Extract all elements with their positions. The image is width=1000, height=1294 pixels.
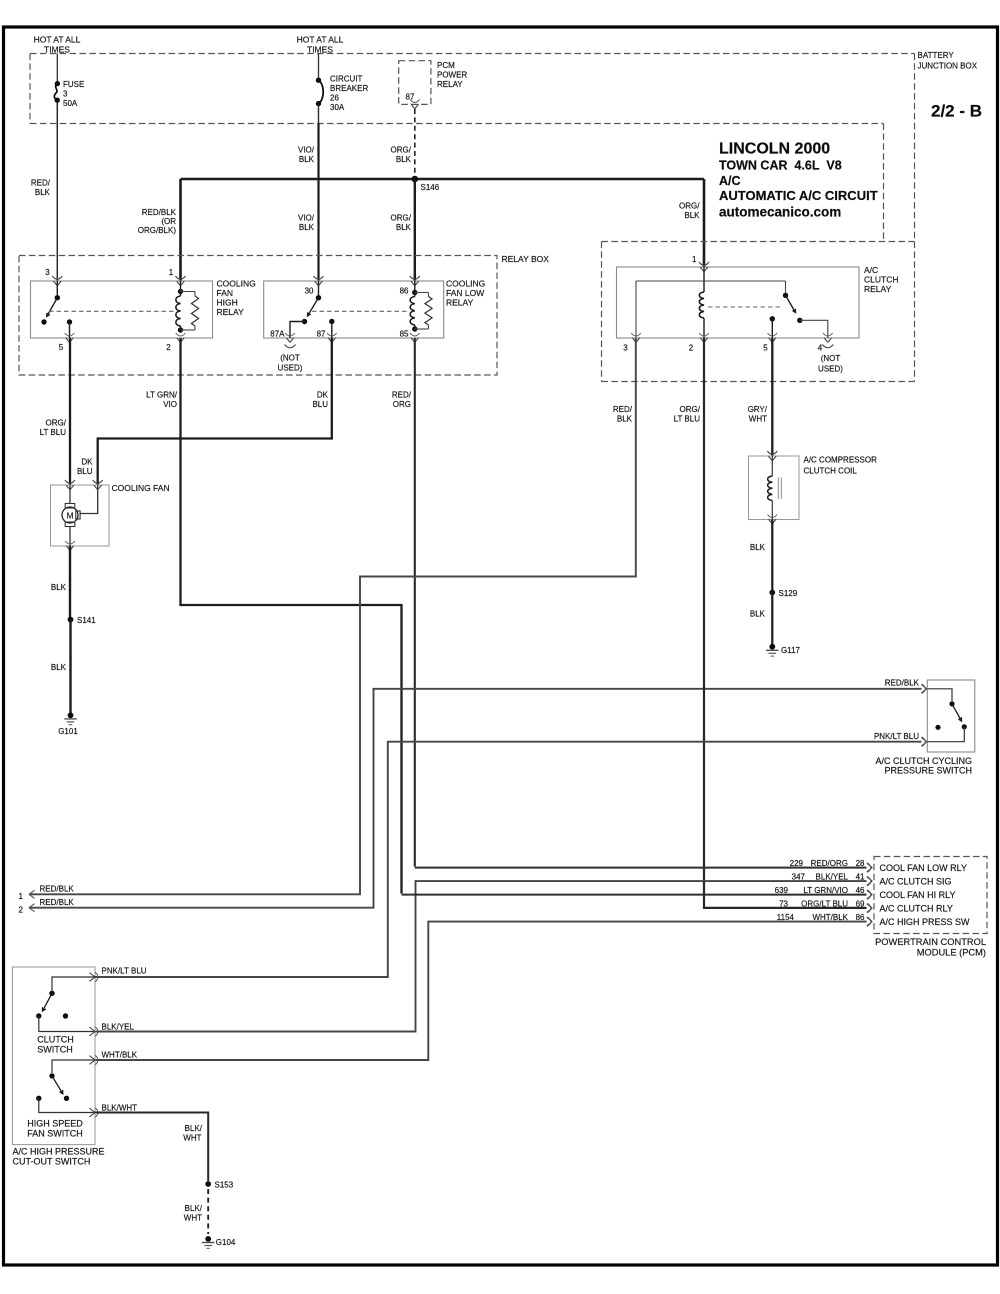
A/C relay coil bbox=[699, 281, 704, 338]
wire ORG/LT BLU high relay pin 5 to fan bbox=[69, 338, 71, 485]
svg-text:41: 41 bbox=[856, 872, 865, 881]
svg-text:BLK/YEL: BLK/YEL bbox=[816, 872, 849, 881]
label RED/BLK (fuse wire) bbox=[31, 179, 51, 198]
svg-text:WHT: WHT bbox=[184, 1214, 202, 1223]
cut-out switch label bbox=[13, 1147, 105, 1167]
label BLK/WHT (vertical lower) bbox=[184, 1204, 203, 1223]
label DK BLU (fan) bbox=[77, 458, 93, 477]
high relay switch bbox=[41, 281, 60, 325]
label RED/BLK (pressure switch) bbox=[885, 679, 920, 688]
pin 85 connector bbox=[410, 333, 420, 342]
svg-text:BLK: BLK bbox=[51, 663, 67, 672]
wire ORG/LT BLU A/C relay pin 2 to PCM bbox=[704, 338, 867, 908]
svg-text:229: 229 bbox=[790, 859, 804, 868]
PCM pin rows (labels and connectors) bbox=[775, 859, 970, 927]
svg-text:1: 1 bbox=[169, 268, 174, 277]
svg-text:DK: DK bbox=[81, 458, 93, 467]
A/C relay internal bus bbox=[636, 267, 786, 338]
svg-text:automecanico.com: automecanico.com bbox=[719, 205, 841, 220]
high relay linkage (dashed) bbox=[49, 310, 174, 312]
svg-text:BLK: BLK bbox=[750, 543, 766, 552]
svg-text:26: 26 bbox=[330, 94, 339, 103]
svg-text:2: 2 bbox=[166, 343, 171, 352]
PCM label bbox=[875, 937, 986, 958]
svg-text:COOL FAN LOW RLY: COOL FAN LOW RLY bbox=[880, 863, 968, 873]
svg-text:RED/ORG: RED/ORG bbox=[811, 859, 848, 868]
svg-text:30A: 30A bbox=[330, 103, 345, 112]
svg-text:86: 86 bbox=[856, 913, 865, 922]
svg-text:HIGH: HIGH bbox=[217, 298, 238, 308]
svg-text:ORG/: ORG/ bbox=[391, 214, 412, 223]
circuit breaker 26 30A bbox=[316, 78, 323, 107]
cooling fan ground connector bbox=[65, 541, 75, 550]
svg-text:G101: G101 bbox=[58, 727, 78, 736]
cooling fan low relay label bbox=[446, 279, 485, 308]
clutch switch bbox=[36, 977, 95, 1032]
A/C relay pin 4 label bbox=[818, 344, 823, 353]
connector 2 (left edge) bbox=[19, 904, 35, 915]
pin 87A not used label bbox=[278, 354, 303, 373]
pin 3 label bbox=[45, 268, 50, 277]
relay box label bbox=[502, 254, 550, 264]
svg-text:RELAY: RELAY bbox=[217, 307, 245, 317]
svg-text:RELAY: RELAY bbox=[446, 298, 474, 308]
A/C relay pin 2 label bbox=[689, 344, 694, 353]
label ORG/LT BLU (fan feed) bbox=[40, 419, 67, 438]
wire RED/ORG low relay pin 85 down bbox=[414, 338, 416, 867]
pin 2 label bbox=[166, 343, 171, 352]
svg-text:A/C CLUTCH SIG: A/C CLUTCH SIG bbox=[880, 876, 952, 886]
label LT GRN/VIO bbox=[146, 391, 178, 410]
label PNK/LT BLU (pressure switch) bbox=[874, 732, 919, 741]
svg-text:50A: 50A bbox=[63, 99, 78, 108]
ground G101 bbox=[58, 712, 78, 736]
svg-text:ORG/: ORG/ bbox=[46, 419, 67, 428]
svg-text:PRESSURE SWITCH: PRESSURE SWITCH bbox=[884, 766, 972, 776]
svg-text:BATTERY: BATTERY bbox=[918, 51, 955, 60]
pin 30 connector bbox=[314, 276, 324, 286]
A/C relay contact to pin 5 bbox=[770, 316, 775, 338]
A/C relay linkage (dashed) bbox=[708, 306, 781, 308]
svg-text:CLUTCH: CLUTCH bbox=[864, 275, 898, 285]
wire RED/BLK circuit 2 (to pressure switch) bbox=[29, 689, 922, 908]
compressor ground connector bbox=[768, 515, 778, 524]
pressure switch label bbox=[875, 756, 972, 776]
title block dashed edge bbox=[883, 124, 885, 242]
wire RED/BLK fuse to relay pin 3 bbox=[56, 103, 58, 282]
svg-text:COOLING: COOLING bbox=[446, 279, 485, 289]
label ORG/BLK (upper) bbox=[391, 146, 412, 165]
svg-text:(OR: (OR bbox=[161, 217, 176, 226]
svg-text:RED/: RED/ bbox=[613, 405, 633, 414]
svg-text:ORG/: ORG/ bbox=[680, 405, 701, 414]
svg-text:JUNCTION BOX: JUNCTION BOX bbox=[918, 62, 978, 71]
svg-text:HIGH SPEED: HIGH SPEED bbox=[27, 1119, 83, 1129]
svg-text:WHT: WHT bbox=[183, 1134, 201, 1143]
title text block bbox=[719, 141, 878, 220]
wire VIO/BLK to relay pin 30 bbox=[317, 124, 319, 282]
svg-text:A/C CLUTCH CYCLING: A/C CLUTCH CYCLING bbox=[875, 756, 972, 766]
svg-text:BLK: BLK bbox=[35, 188, 51, 197]
svg-text:FAN: FAN bbox=[217, 288, 234, 298]
label BLK/YEL (clutch switch) bbox=[102, 1023, 135, 1032]
svg-text:2: 2 bbox=[19, 906, 24, 915]
svg-text:A/C HIGH PRESSURE: A/C HIGH PRESSURE bbox=[13, 1147, 105, 1157]
cooling fan box bbox=[51, 485, 110, 546]
A/C compressor clutch coil box bbox=[749, 456, 800, 520]
label RED/BLK (A/C pin 3) bbox=[613, 405, 633, 424]
svg-text:S146: S146 bbox=[421, 183, 440, 192]
svg-text:347: 347 bbox=[792, 872, 806, 881]
hot at all times label (right feed) bbox=[297, 35, 344, 55]
wire ORG/BLK S146 to low relay pin 86 bbox=[414, 179, 416, 281]
label RED/BLK (circuit 2) bbox=[40, 898, 75, 907]
svg-text:CIRCUIT: CIRCUIT bbox=[330, 75, 363, 84]
wire PNK/LT BLU clutch switch to pressure switch bbox=[95, 742, 922, 977]
pin 1 label bbox=[169, 268, 174, 277]
A/C high pressure cut-out switch box bbox=[12, 967, 95, 1145]
A/C clutch relay dashed box bbox=[602, 242, 915, 382]
svg-text:639: 639 bbox=[775, 886, 789, 895]
label VIO/BLK (upper) bbox=[298, 146, 315, 165]
svg-text:1154: 1154 bbox=[777, 913, 795, 922]
svg-text:BLK: BLK bbox=[617, 415, 633, 424]
label BLK (compressor upper) bbox=[750, 543, 766, 552]
svg-text:1: 1 bbox=[692, 255, 697, 264]
clutch switch BLK/YEL connector bbox=[90, 1027, 98, 1037]
label WHT/BLK (fan switch) bbox=[102, 1051, 138, 1060]
pressure switch internals bbox=[927, 689, 967, 742]
pin 2 connector bbox=[176, 333, 186, 342]
svg-text:FUSE: FUSE bbox=[63, 80, 84, 89]
label RED/BLK (circuit 1) bbox=[40, 885, 75, 894]
svg-text:BLK/: BLK/ bbox=[185, 1204, 203, 1213]
pin 86 label bbox=[400, 287, 409, 296]
cooling fan label bbox=[112, 483, 170, 493]
wire BLK S129 to G117 bbox=[771, 593, 773, 647]
pin 87A connector (not used) bbox=[285, 333, 296, 348]
svg-text:CLUTCH COIL: CLUTCH COIL bbox=[804, 467, 858, 476]
svg-text:A/C: A/C bbox=[719, 174, 741, 188]
wire BLK/WHT fan switch to S153 bbox=[95, 1113, 208, 1182]
fuse label bbox=[63, 80, 84, 108]
svg-text:PNK/LT BLU: PNK/LT BLU bbox=[102, 967, 147, 976]
pin 86 connector bbox=[410, 276, 420, 286]
svg-text:LT GRN/VIO: LT GRN/VIO bbox=[803, 886, 848, 895]
svg-text:87: 87 bbox=[317, 330, 326, 339]
label VIO/BLK (lower) bbox=[298, 214, 315, 233]
svg-text:MODULE (PCM): MODULE (PCM) bbox=[917, 947, 986, 957]
compressor coil winding bbox=[768, 456, 782, 520]
svg-text:USED): USED) bbox=[818, 365, 843, 374]
wire LT GRN/VIO high relay pin 2 to PCM jog bbox=[181, 338, 402, 894]
cooling fan high relay label bbox=[217, 279, 256, 318]
svg-text:HOT AT ALL: HOT AT ALL bbox=[34, 35, 81, 45]
svg-text:VIO: VIO bbox=[163, 400, 177, 409]
low relay contact to pin 87 bbox=[329, 319, 334, 338]
compressor feed connector bbox=[767, 451, 777, 461]
relay box (dashed) bbox=[19, 256, 497, 376]
svg-text:S153: S153 bbox=[215, 1181, 234, 1190]
svg-text:BLK: BLK bbox=[684, 211, 700, 220]
svg-text:TIMES: TIMES bbox=[44, 45, 70, 55]
svg-text:HOT AT ALL: HOT AT ALL bbox=[297, 35, 344, 45]
label GRY/WHT (A/C pin 5) bbox=[748, 405, 768, 424]
svg-text:POWER: POWER bbox=[437, 71, 467, 80]
wire GRY/WHT A/C relay pin 5 to compressor bbox=[771, 338, 773, 456]
svg-text:WHT/BLK: WHT/BLK bbox=[102, 1051, 138, 1060]
svg-text:BLK: BLK bbox=[396, 223, 412, 232]
PCM wire row 1 RED/ORG bbox=[415, 867, 867, 869]
svg-text:VIO/: VIO/ bbox=[298, 214, 315, 223]
wire BLK compressor to S129 bbox=[771, 520, 773, 592]
A/C clutch cycling pressure switch box bbox=[927, 680, 975, 752]
PCM wire row 3 LT GRN/VIO bbox=[402, 894, 867, 896]
svg-text:69: 69 bbox=[856, 899, 865, 908]
svg-text:1: 1 bbox=[19, 892, 24, 901]
high relay coil shunt resistor bbox=[181, 292, 199, 331]
pin 87 connector bbox=[327, 333, 337, 342]
circuit breaker label bbox=[330, 75, 368, 113]
pressure switch PNK/LT BLU connector bbox=[921, 737, 927, 747]
svg-text:3: 3 bbox=[623, 344, 628, 353]
label BLK (fan upper) bbox=[51, 583, 67, 592]
hot at all times label (left feed) bbox=[34, 35, 81, 55]
label ORG/BLK (lower) bbox=[391, 214, 412, 233]
svg-text:ORG/BLK): ORG/BLK) bbox=[138, 226, 177, 235]
high relay contact to pin 5 bbox=[67, 319, 72, 338]
PCM power relay (dashed box) bbox=[399, 61, 431, 105]
node S141 bbox=[68, 616, 97, 625]
A/C clutch relay label bbox=[864, 265, 898, 294]
pin 85 label bbox=[400, 330, 409, 339]
wire DK BLU low relay pin 87 to cooling fan bbox=[98, 338, 332, 485]
ground G104 bbox=[202, 1236, 236, 1248]
pin 30 label bbox=[305, 287, 314, 296]
svg-text:85: 85 bbox=[400, 330, 409, 339]
wire RED/BLK (OR ORG/BLK) to high relay pin 1 bbox=[179, 179, 182, 281]
cooling fan high relay box bbox=[31, 281, 213, 338]
A/C relay pin 4 connector (not used) bbox=[822, 333, 833, 348]
label PNK/LT BLU (clutch switch) bbox=[102, 967, 147, 976]
pin 87A label bbox=[270, 330, 285, 339]
cooling fan DK BLU connector bbox=[93, 480, 103, 490]
svg-text:ORG/: ORG/ bbox=[391, 146, 412, 155]
wire ORG/BLK S146 to A/C clutch relay pin 1 bbox=[703, 179, 706, 267]
A/C relay pin 2 connector bbox=[699, 333, 709, 342]
svg-text:5: 5 bbox=[59, 343, 64, 352]
svg-text:M: M bbox=[66, 510, 73, 520]
svg-text:WHT/BLK: WHT/BLK bbox=[812, 913, 848, 922]
svg-text:POWERTRAIN CONTROL: POWERTRAIN CONTROL bbox=[875, 937, 986, 947]
A/C relay pin 1 label bbox=[692, 255, 697, 264]
svg-text:ORG: ORG bbox=[393, 400, 411, 409]
low relay coil bbox=[410, 281, 417, 332]
fan switch WHT/BLK connector bbox=[90, 1055, 98, 1065]
battery junction box (dashed) bbox=[30, 54, 915, 382]
PCM wire row 5 WHT/BLK (from fan switch) bbox=[95, 922, 867, 1060]
A/C relay pin 3 label bbox=[623, 344, 628, 353]
svg-text:BLK: BLK bbox=[299, 223, 315, 232]
svg-text:CUT-OUT SWITCH: CUT-OUT SWITCH bbox=[13, 1157, 91, 1167]
svg-text:73: 73 bbox=[779, 899, 788, 908]
svg-text:A/C HIGH PRESS SW: A/C HIGH PRESS SW bbox=[880, 917, 971, 927]
connector 1 (left edge) bbox=[19, 890, 35, 901]
svg-text:A/C CLUTCH RLY: A/C CLUTCH RLY bbox=[880, 903, 953, 913]
pressure switch RED/BLK connector bbox=[921, 684, 927, 694]
A/C relay pin 5 connector bbox=[768, 333, 778, 342]
svg-text:3: 3 bbox=[45, 268, 50, 277]
clutch switch output connector bbox=[90, 972, 98, 982]
powertrain control module dashed box bbox=[874, 857, 987, 934]
svg-text:86: 86 bbox=[400, 287, 409, 296]
pin 3 connector bbox=[52, 276, 62, 286]
wire fuse feed (top) bbox=[56, 54, 58, 82]
svg-text:(NOT: (NOT bbox=[821, 354, 841, 363]
svg-text:RED/BLK: RED/BLK bbox=[40, 885, 75, 894]
label BLK (compressor lower) bbox=[750, 610, 766, 619]
wire RED/BLK circuit 1 (to A/C relay pin 3) bbox=[29, 338, 636, 894]
svg-text:RED/BLK: RED/BLK bbox=[142, 208, 177, 217]
svg-text:28: 28 bbox=[856, 859, 865, 868]
svg-text:RELAY BOX: RELAY BOX bbox=[502, 254, 550, 264]
fuse 3 50A bbox=[54, 81, 60, 103]
wire BLK fan to S141 bbox=[69, 546, 71, 618]
svg-text:TIMES: TIMES bbox=[307, 45, 333, 55]
high speed fan switch label bbox=[27, 1119, 83, 1139]
svg-text:PCM: PCM bbox=[437, 61, 455, 70]
label ORG/BLK (A/C relay feed) bbox=[679, 202, 700, 221]
label RED/ORG bbox=[392, 391, 412, 410]
svg-text:A/C: A/C bbox=[864, 265, 878, 275]
A/C clutch relay box bbox=[617, 267, 860, 338]
svg-text:BLK: BLK bbox=[299, 155, 315, 164]
svg-text:FAN LOW: FAN LOW bbox=[446, 288, 484, 298]
svg-text:AUTOMATIC A/C CIRCUIT: AUTOMATIC A/C CIRCUIT bbox=[719, 188, 878, 203]
svg-text:30: 30 bbox=[305, 287, 314, 296]
cooling fan low relay box bbox=[264, 281, 444, 338]
svg-text:ORG/LT BLU: ORG/LT BLU bbox=[801, 899, 848, 908]
label RED/BLK (OR ORG/BLK) bbox=[138, 208, 177, 235]
svg-text:BLK: BLK bbox=[750, 610, 766, 619]
svg-text:DK: DK bbox=[317, 391, 329, 400]
label BLK (fan lower) bbox=[51, 663, 67, 672]
svg-text:46: 46 bbox=[856, 886, 865, 895]
A/C compressor clutch coil label bbox=[804, 456, 878, 476]
svg-text:BREAKER: BREAKER bbox=[330, 84, 368, 93]
battery junction box label bbox=[918, 51, 978, 71]
svg-text:FAN SWITCH: FAN SWITCH bbox=[27, 1129, 83, 1139]
pin 5 connector bbox=[65, 333, 75, 342]
svg-text:RED/: RED/ bbox=[392, 391, 412, 400]
svg-text:87A: 87A bbox=[270, 330, 285, 339]
svg-text:SWITCH: SWITCH bbox=[37, 1045, 73, 1055]
svg-text:CLUTCH: CLUTCH bbox=[37, 1035, 74, 1045]
svg-text:LT BLU: LT BLU bbox=[40, 428, 67, 437]
svg-text:BLK: BLK bbox=[396, 155, 412, 164]
high speed fan switch bbox=[36, 1060, 95, 1113]
svg-text:3: 3 bbox=[63, 90, 68, 99]
svg-text:GRY/: GRY/ bbox=[748, 405, 768, 414]
svg-text:BLU: BLU bbox=[77, 467, 93, 476]
A/C relay pin 4 not used label bbox=[818, 354, 843, 374]
svg-text:VIO/: VIO/ bbox=[298, 146, 315, 155]
svg-text:BLK: BLK bbox=[51, 583, 67, 592]
cooling fan motor bbox=[62, 485, 98, 546]
svg-text:ORG/: ORG/ bbox=[679, 202, 700, 211]
svg-text:BLK/YEL: BLK/YEL bbox=[102, 1023, 135, 1032]
pin 1 connector bbox=[176, 276, 186, 286]
svg-text:2/2 - B: 2/2 - B bbox=[931, 102, 982, 121]
A/C relay pin 5 label bbox=[763, 344, 768, 353]
page tag 2/2 - B bbox=[931, 102, 982, 121]
svg-text:G104: G104 bbox=[216, 1238, 236, 1247]
svg-text:COOLING FAN: COOLING FAN bbox=[112, 483, 170, 493]
A/C relay pin 3 connector bbox=[631, 333, 641, 342]
node S129 bbox=[769, 589, 797, 598]
label BLK/WHT (fan switch out) bbox=[102, 1104, 138, 1113]
fan switch BLK/WHT connector bbox=[90, 1108, 98, 1118]
svg-text:RED/BLK: RED/BLK bbox=[885, 679, 920, 688]
svg-text:S141: S141 bbox=[77, 616, 96, 625]
wire RED/BLK(OR ORG/BLK) bus bbox=[181, 178, 705, 181]
wire BLK S141 to G101 bbox=[69, 620, 71, 715]
low relay linkage (dashed) bbox=[312, 310, 408, 312]
svg-text:(NOT: (NOT bbox=[280, 354, 300, 363]
high relay coil bbox=[176, 281, 183, 333]
svg-text:RED/BLK: RED/BLK bbox=[40, 898, 75, 907]
svg-text:BLU: BLU bbox=[312, 400, 328, 409]
svg-text:RELAY: RELAY bbox=[437, 80, 463, 89]
clutch switch label bbox=[37, 1035, 74, 1055]
pin 5 label bbox=[59, 343, 64, 352]
low relay coil shunt resistor bbox=[415, 293, 432, 330]
svg-text:LT BLU: LT BLU bbox=[674, 415, 701, 424]
wire ORG/BLK dashed (PCM relay to S146) bbox=[414, 109, 416, 176]
svg-text:COOL FAN HI RLY: COOL FAN HI RLY bbox=[880, 890, 956, 900]
svg-text:BLK/WHT: BLK/WHT bbox=[102, 1104, 138, 1113]
PCM power relay label bbox=[437, 61, 467, 89]
wire BLK/WHT dashed S153 to G104 bbox=[207, 1189, 209, 1234]
svg-text:LINCOLN 2000: LINCOLN 2000 bbox=[719, 141, 830, 158]
A/C relay switch bbox=[783, 281, 828, 338]
low relay switch bbox=[290, 281, 321, 338]
cooling fan feed connector bbox=[65, 480, 75, 490]
svg-text:G117: G117 bbox=[781, 646, 801, 655]
pin 87 label bbox=[317, 330, 326, 339]
svg-text:TOWN CAR 4.6L V8: TOWN CAR 4.6L V8 bbox=[719, 159, 842, 173]
label BLK/WHT (vertical upper) bbox=[183, 1124, 202, 1143]
svg-text:LT GRN/: LT GRN/ bbox=[146, 391, 178, 400]
label ORG/LT BLU (A/C pin 2) bbox=[674, 405, 701, 424]
wire breaker feed (top) bbox=[318, 54, 320, 81]
svg-text:COOLING: COOLING bbox=[217, 279, 256, 289]
svg-text:PNK/LT BLU: PNK/LT BLU bbox=[874, 732, 919, 741]
svg-text:2: 2 bbox=[689, 344, 694, 353]
A/C relay pin 1 connector bbox=[699, 262, 709, 272]
node S146 bbox=[412, 176, 440, 192]
label DK BLU (pin 87) bbox=[312, 391, 328, 410]
node S153 bbox=[205, 1181, 233, 1190]
PCM wire row 2 BLK/YEL (from clutch switch) bbox=[95, 881, 867, 1031]
svg-text:5: 5 bbox=[763, 344, 768, 353]
svg-text:USED): USED) bbox=[278, 364, 303, 373]
svg-text:RED/: RED/ bbox=[31, 179, 51, 188]
ground G117 bbox=[766, 644, 800, 656]
svg-text:WHT: WHT bbox=[749, 415, 767, 424]
svg-text:S129: S129 bbox=[779, 589, 798, 598]
svg-text:RELAY: RELAY bbox=[864, 284, 892, 294]
